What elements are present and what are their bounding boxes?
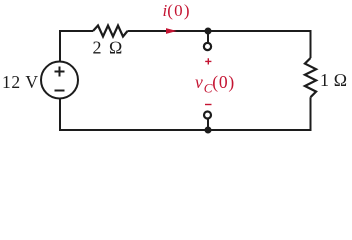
wire stub from top node to terminal [207, 31, 209, 43]
open terminal bottom [204, 112, 211, 119]
polarity plus sign red [205, 58, 211, 64]
svg-text:1 Ω: 1 Ω [320, 70, 347, 90]
voltage source V1 circle [41, 62, 78, 99]
voltage source plus sign [55, 67, 65, 77]
resistor R2 1-ohm zigzag vertical [305, 58, 316, 97]
wire stub from bottom terminal to bottom node [207, 119, 209, 131]
polarity minus sign red [205, 104, 212, 106]
wire left vertical from source down, bottom segment, right vertical up to resistor [60, 97, 311, 130]
svg-text:(0): (0) [212, 72, 235, 92]
svg-text:v: v [195, 72, 203, 92]
open terminal top [204, 43, 211, 50]
voltage source minus sign [55, 90, 65, 92]
junction node dot top [205, 28, 212, 35]
svg-text:12 V: 12 V [2, 72, 39, 92]
svg-text:(0): (0) [167, 1, 190, 20]
wire top-left segment and left vertical down to source [60, 31, 93, 62]
current arrowhead i(0) [166, 28, 177, 34]
junction node dot bottom [205, 127, 212, 134]
svg-text:2 Ω: 2 Ω [93, 38, 125, 58]
resistor R1 2-ohm zigzag [93, 26, 128, 37]
wire top-middle segment and right vertical down to resistor [128, 31, 311, 58]
